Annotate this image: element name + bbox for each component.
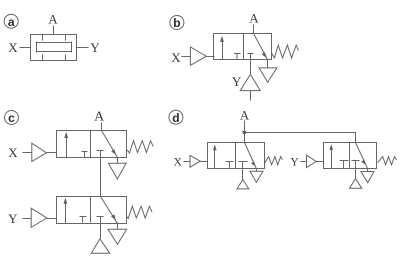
svg-text:b: b — [173, 16, 180, 30]
valve V5 exhaust stem — [256, 169, 258, 172]
valve V2 exhaust triangle — [259, 68, 277, 82]
valve V4 body — [57, 197, 127, 224]
wire pilot to valve — [201, 161, 208, 163]
wire below supply triangle — [250, 91, 252, 101]
svg-text:X: X — [8, 40, 18, 55]
pilot triangle Y — [307, 155, 317, 167]
valve V4 exhaust triangle — [108, 229, 127, 244]
valve V6 divider — [349, 143, 351, 169]
valve V5 blocked port T2 — [239, 162, 248, 169]
valve V3 body — [57, 131, 127, 158]
wire X — [20, 47, 31, 49]
valve V3 exhaust triangle — [108, 163, 126, 179]
valve V3 blocked port T1 — [82, 152, 88, 158]
svg-text:d: d — [172, 111, 179, 125]
valve V6 flow arrow — [331, 149, 333, 169]
supply triangle P1 — [237, 180, 249, 189]
wire Y to pilot — [23, 218, 32, 220]
svg-text:X: X — [171, 50, 181, 65]
supply triangle Y — [240, 74, 260, 90]
wire pilot to valve — [47, 152, 57, 154]
label c (circled) — [5, 111, 19, 126]
wire V5 supply stem — [242, 169, 244, 180]
valve V1 shuttle piston — [37, 42, 72, 53]
svg-text:A: A — [94, 110, 105, 125]
svg-text:c: c — [8, 111, 15, 125]
wire Y supply stem — [250, 60, 252, 75]
valve V6 blocked port T1 — [340, 161, 349, 169]
valve V2 exhaust stem — [267, 60, 269, 68]
valve V2 blocked port T1 — [234, 54, 241, 60]
svg-text:Y: Y — [8, 211, 18, 226]
wire X to pilot — [184, 161, 191, 163]
valve V6 exhaust triangle — [361, 172, 374, 183]
svg-text:a: a — [8, 15, 15, 29]
valve V4 flow arrow — [65, 204, 67, 224]
pilot triangle X — [190, 156, 200, 168]
svg-text:A: A — [240, 107, 250, 122]
valve V3 divider — [90, 131, 92, 158]
valve V2 divider — [243, 34, 245, 60]
pilot triangle Y — [31, 208, 47, 227]
valve V6 blocked port T2 — [352, 161, 360, 169]
label b (circled) — [170, 16, 184, 31]
valve V5 return spring — [264, 157, 282, 165]
valve V2 body — [214, 34, 272, 60]
supply triangle P2 — [350, 179, 362, 189]
wire pilot to valve — [207, 56, 215, 58]
wire pilot to valve — [47, 218, 57, 220]
svg-text:X: X — [8, 145, 18, 160]
wire V6 supply stem — [355, 169, 357, 179]
two-pressure valve V1 body — [31, 35, 77, 61]
valve V5 body — [208, 143, 265, 169]
valve V3 blocked port T2 — [97, 151, 104, 158]
wire Y — [77, 47, 89, 49]
valve V2 blocked port T2 — [248, 54, 254, 60]
wire series connection V3 supply to V4 outlet — [100, 158, 102, 197]
wire A stem — [253, 25, 255, 34]
valve V3 exhaust stem — [117, 158, 119, 164]
wire junction to V6 — [245, 133, 356, 143]
valve V5 exhaust triangle — [250, 171, 263, 182]
svg-text:Y: Y — [290, 157, 299, 169]
svg-text:X: X — [173, 157, 182, 169]
svg-text:A: A — [48, 12, 58, 27]
junction node dot — [243, 131, 247, 135]
svg-text:Y: Y — [232, 74, 242, 89]
wire pilot to valve — [317, 161, 324, 163]
valve V5 divider — [235, 143, 237, 169]
valve V5 flow arrow — [214, 150, 216, 169]
valve V5 blocked port T1 — [226, 162, 234, 169]
pilot triangle X — [190, 47, 206, 65]
wire Y to pilot — [301, 161, 307, 163]
valve V5 exhaust path diagonal — [245, 143, 257, 169]
valve V3 return spring — [127, 141, 153, 153]
label a (circled) — [4, 14, 18, 29]
pilot triangle X — [32, 143, 47, 161]
valve V4 exhaust stem — [117, 223, 119, 230]
wire X to pilot — [23, 152, 32, 154]
wire V4 supply stem — [100, 223, 102, 239]
valve V6 outlet path diagonal — [356, 143, 368, 169]
wire A stem — [53, 26, 55, 35]
valve V4 blocked port T2 — [97, 217, 104, 223]
valve V6 exhaust stem — [367, 169, 369, 172]
valve V4 blocked port T1 — [80, 217, 87, 223]
valve V2 exhaust path diagonal — [254, 34, 268, 60]
valve V3 exhaust path diagonal — [102, 131, 118, 158]
valve V1 seat ticks — [43, 35, 66, 61]
wire A stem — [101, 123, 103, 131]
label d (circled) — [169, 110, 183, 125]
valve V3 flow arrow — [66, 138, 68, 158]
supply triangle P — [91, 239, 109, 254]
valve V2 flow arrow — [222, 41, 224, 60]
wire X to pilot — [182, 56, 191, 58]
valve V6 return spring — [378, 157, 397, 165]
wire A stem — [244, 121, 246, 143]
svg-text:A: A — [249, 11, 259, 26]
valve V4 divider — [90, 197, 92, 223]
svg-text:Y: Y — [90, 40, 100, 55]
valve V2 return spring — [272, 45, 299, 58]
valve V4 outlet path diagonal — [101, 197, 118, 224]
valve V4 return spring — [126, 206, 152, 218]
valve V6 body — [324, 143, 377, 169]
